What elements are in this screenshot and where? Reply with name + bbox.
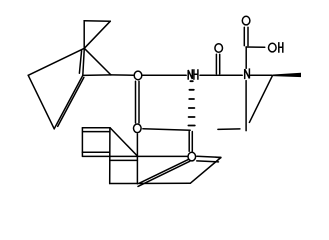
atom O of OH [269,43,277,52]
wire double bond O5-W upper [197,156,221,157]
wire bond A-B [28,48,84,75]
atom O4 [242,16,250,25]
wire cyclobutane top edge TL-TR [84,20,110,22]
wire bottom edge to X [110,182,191,184]
wire double bond O5-W lower [197,161,219,162]
wire double bond Z-O5 upper [139,158,191,183]
wire double bond Ccooh-O4 left [243,27,245,45]
wedge bond CH-CH3 [273,73,301,77]
wire NH-V1 hash bond dashes [188,81,194,125]
wire bond W-X [190,158,221,184]
wire double bond O1-O2 right [138,81,140,123]
wire bond CH-CH2ring [249,76,272,123]
wire double bond A-D main [83,48,85,75]
wire bond B-C [28,75,54,129]
wire square1 top edge [82,127,110,129]
wire double bond C-D main [54,75,83,128]
wire square1 inner top line [83,131,110,133]
wire diagonal D1 [110,128,137,156]
wire long horizontal H1 to O5 [83,155,187,157]
atom label H of NH [194,70,198,79]
wire vertical below O2 [136,134,138,184]
wire hypotenuse TR-A [84,21,110,48]
wire bond N-Ccooh [245,47,247,68]
wire double bond A-D inner [79,51,81,74]
wire bond Ccooh-OH [246,46,265,48]
junction blob at W [216,156,222,158]
wire bond N-CH [251,74,273,76]
wire bond NH-Curea [200,74,242,76]
wire long right vertical edge [109,128,111,184]
wire bond O2-V1 [143,129,190,130]
atom label H of OH [279,43,283,52]
wire double bond O1-O2 left [135,81,137,123]
wire bond A-E [84,48,111,75]
wire square1 bottom edge [82,151,109,153]
wire double bond Curea-O3 right [219,54,221,73]
wire double bond Z-O5 lower [138,161,190,186]
wire bond D-E [83,74,111,77]
wire square1 left edge [81,128,83,157]
wire bond O1-NH [143,74,187,76]
wire bond E-O1 [111,74,133,76]
atom O1 [134,71,142,80]
wire square2 top edge H2 [110,159,138,161]
atom O5 [188,152,196,161]
atom O3 [215,44,223,53]
atom O2 [134,124,142,133]
wire double bond V1-O5 left [188,132,190,152]
wire bond CH2-CH3 stub [218,128,240,131]
wire bond N-CH2 vertical [245,81,247,131]
wire double bond V1-O5 right [191,132,193,152]
wire double bond Curea-O3 left [215,54,217,73]
wire double bond Ccooh-O4 right [247,27,249,45]
atom label N ring [245,69,250,78]
wire double bond C-D inner [58,77,84,126]
wire vertical TL-A [83,21,85,49]
atom label N of NH [188,70,192,79]
